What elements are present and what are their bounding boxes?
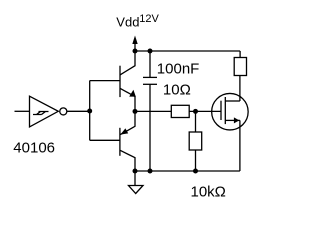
- svg-text:10Ω: 10Ω: [163, 81, 191, 98]
- svg-text:12V: 12V: [139, 13, 159, 25]
- svg-text:Vdd: Vdd: [116, 15, 139, 30]
- svg-text:100nF: 100nF: [157, 60, 200, 77]
- svg-text:40106: 40106: [13, 140, 55, 157]
- svg-text:10kΩ: 10kΩ: [191, 183, 226, 200]
